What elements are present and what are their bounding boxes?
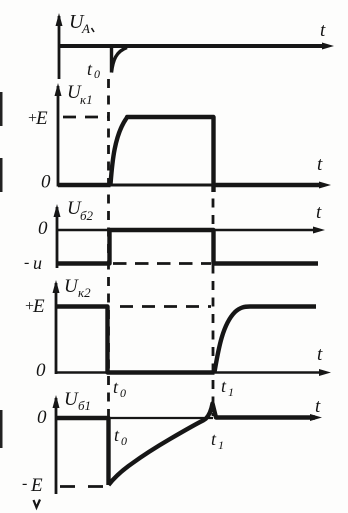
svg-text:u: u	[33, 253, 42, 273]
plot4 vertical axis U_k2	[55, 283, 58, 374]
svg-text:t: t	[316, 202, 322, 223]
plot1 signal/time axis at U_A level	[59, 44, 327, 48]
plot4 waveform U_k2	[56, 307, 316, 373]
svg-text:t: t	[317, 154, 323, 175]
svg-text:0: 0	[36, 360, 46, 381]
svg-text:-: -	[24, 254, 29, 271]
svg-text:б1: б1	[78, 398, 91, 413]
plot2 vertical axis arrowhead	[55, 83, 62, 96]
plot5 dashed -E level	[60, 485, 106, 488]
plot3 waveform U_b2	[57, 230, 318, 264]
svg-text:t: t	[315, 396, 321, 417]
small tick after U_A subscript	[92, 28, 95, 32]
svg-text:б2: б2	[80, 208, 94, 223]
plot2 time axis	[58, 184, 324, 187]
plot2 waveform U_k1	[58, 117, 322, 192]
plot3 time axis arrowhead	[313, 227, 325, 234]
plot2 time axis arrowhead	[319, 182, 331, 189]
svg-text:t: t	[113, 377, 119, 397]
svg-text:U: U	[64, 389, 79, 410]
svg-text:E: E	[30, 475, 43, 496]
plot5 vertical axis arrowhead	[53, 395, 60, 408]
svg-text:к1: к1	[80, 92, 93, 107]
plot2 dashed +E level	[63, 116, 108, 119]
plot3 vertical axis U_b2	[56, 207, 59, 268]
svg-text:1: 1	[218, 438, 224, 452]
plot5 time axis arrowhead	[310, 414, 322, 421]
plot4 time axis arrowhead	[319, 369, 331, 376]
svg-text:t: t	[211, 429, 217, 449]
plot4 time axis	[56, 371, 324, 373]
small down arrow below -E	[34, 500, 41, 508]
svg-text:t: t	[87, 59, 93, 79]
svg-text:к2: к2	[78, 285, 91, 300]
svg-text:0: 0	[121, 434, 127, 448]
svg-text:-: -	[22, 475, 27, 492]
plot3 time axis	[57, 229, 318, 231]
svg-text:t: t	[114, 425, 120, 445]
svg-text:t: t	[317, 344, 323, 365]
svg-text:0: 0	[41, 172, 51, 193]
plot5 time axis thin middle part	[108, 417, 213, 419]
svg-text:E: E	[32, 296, 45, 317]
dashed vertical line t1	[212, 116, 215, 416]
plot3 vertical axis arrowhead	[54, 204, 61, 217]
plot1 time axis arrowhead	[322, 43, 334, 50]
svg-text:E: E	[35, 108, 48, 129]
svg-text:0: 0	[37, 407, 47, 428]
svg-text:0: 0	[120, 386, 126, 400]
svg-text:A: A	[81, 21, 90, 36]
plot5 vertical axis U_b1	[55, 398, 58, 494]
dashed vertical line t0	[107, 79, 110, 487]
plot1 vertical axis U_A	[58, 16, 61, 79]
plot4 dashed +E level between t0 and curve	[120, 305, 211, 308]
scan mark left edge middle	[0, 158, 3, 192]
plot1 spike at t0	[112, 46, 128, 73]
scan mark left edge top	[0, 92, 3, 126]
svg-text:0: 0	[38, 218, 48, 239]
plot2 vertical axis U_k1	[57, 86, 60, 187]
svg-text:t: t	[221, 376, 227, 396]
svg-text:U: U	[64, 276, 79, 297]
svg-text:1: 1	[228, 385, 234, 399]
plot5 waveform U_b1	[56, 404, 315, 486]
scan mark left edge bottom	[0, 410, 3, 448]
plot1 vertical axis arrowhead	[56, 13, 63, 26]
plot3 dashed -u level between t0 and t1	[113, 262, 211, 265]
svg-text:t: t	[320, 20, 326, 41]
plot4 vertical axis arrowhead	[53, 280, 60, 293]
svg-text:0: 0	[94, 67, 100, 81]
